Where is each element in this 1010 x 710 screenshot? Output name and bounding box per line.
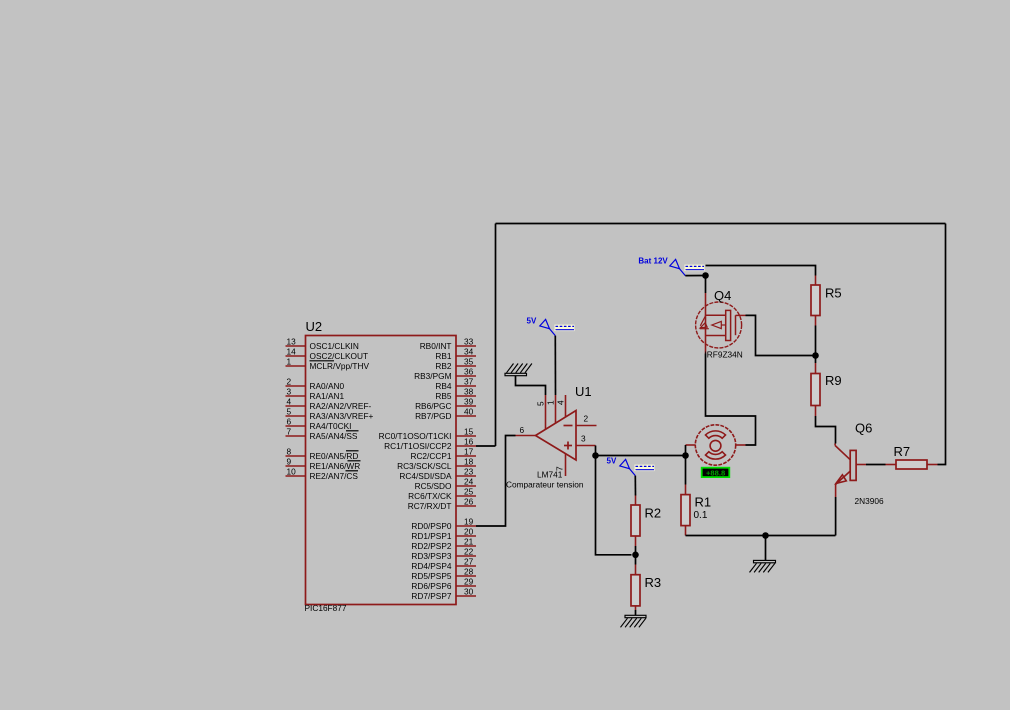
- resistor R5: [811, 276, 842, 326]
- wire: Q6 emitter to bottom rail: [835, 497, 837, 536]
- U2 SS overline: [346, 430, 359, 432]
- U2 pin 3 (RA1/AN1): [286, 387, 345, 402]
- U2 MCLR overline: [310, 360, 335, 362]
- U2 pin 22 (RD3/PSP3): [411, 547, 476, 562]
- svg-text:R7: R7: [894, 444, 911, 459]
- U2 pin 6 (RA4/T0CKI): [286, 417, 352, 432]
- wire: 5V terminal to R2: [634, 476, 636, 496]
- wire: ground to U1 pin5: [516, 376, 546, 395]
- svg-text:U1: U1: [575, 384, 592, 399]
- svg-text:3: 3: [581, 434, 586, 444]
- svg-text:37: 37: [464, 377, 474, 387]
- wire: right border down to R7: [938, 224, 946, 465]
- svg-text:6: 6: [287, 417, 292, 427]
- svg-text:9: 9: [287, 457, 292, 467]
- U2 pin 10 (RE2/AN7/CS): [286, 467, 359, 482]
- wire: Q6 base to R7: [866, 464, 886, 466]
- svg-text:RC1/T1OSI/CCP2: RC1/T1OSI/CCP2: [384, 441, 452, 451]
- U2 pin 35 (RB2): [435, 357, 476, 372]
- svg-text:Q6: Q6: [855, 421, 872, 436]
- resistor R3: [631, 555, 661, 610]
- svg-text:RB2: RB2: [435, 361, 452, 371]
- wire: motor left pin to node: [685, 445, 687, 456]
- U2 pin 18 (RC3/SCK/SCL): [397, 457, 476, 472]
- U2 pin 36 (RB3/PGM): [414, 367, 476, 382]
- wire: R2 bottom to junction: [635, 546, 637, 555]
- svg-text:PIC16F877: PIC16F877: [305, 603, 347, 613]
- power terminal 5V (divider): [620, 459, 655, 475]
- svg-text:RB1: RB1: [435, 351, 452, 361]
- junction node Bat12V: [702, 272, 709, 279]
- svg-text:14: 14: [287, 347, 297, 357]
- motor (DC motor symbol): [686, 425, 746, 465]
- svg-text:+88.8: +88.8: [706, 468, 725, 477]
- svg-text:RC6/TX/CK: RC6/TX/CK: [408, 491, 452, 501]
- U2 WR overline: [348, 460, 361, 462]
- svg-text:4: 4: [287, 397, 292, 407]
- motor readout display: [702, 468, 730, 478]
- U2 pin 34 (RB1): [435, 347, 476, 362]
- svg-text:5V: 5V: [607, 457, 617, 466]
- svg-text:RA5/AN4/SS: RA5/AN4/SS: [310, 431, 358, 441]
- svg-text:Q4: Q4: [714, 288, 731, 303]
- microcontroller U2: [306, 336, 457, 605]
- junction node U1 pin3: [592, 452, 599, 459]
- svg-text:8: 8: [287, 447, 292, 457]
- svg-text:RD5/PSP5: RD5/PSP5: [411, 571, 452, 581]
- svg-text:RD2/PSP2: RD2/PSP2: [411, 541, 452, 551]
- svg-text:RD6/PSP6: RD6/PSP6: [411, 581, 452, 591]
- U2 pin 7 (RA5/AN4/SS): [286, 427, 358, 442]
- ground (below R3): [621, 615, 647, 627]
- U2 pin 30 (RD7/PSP7): [411, 587, 476, 602]
- junction node motor/R1: [682, 452, 689, 459]
- svg-text:2N3906: 2N3906: [855, 496, 884, 506]
- svg-text:4: 4: [556, 400, 566, 405]
- svg-text:RB7/PGD: RB7/PGD: [415, 411, 451, 421]
- wire: Q4 source down to motor wire: [706, 354, 756, 446]
- svg-text:RA2/AN2/VREF-: RA2/AN2/VREF-: [310, 401, 372, 411]
- U1 pin 6 (output, left): [516, 435, 536, 437]
- wire: R3 to ground: [635, 610, 637, 615]
- svg-text:30: 30: [464, 587, 474, 597]
- svg-text:R1: R1: [695, 495, 712, 510]
- U1 pin 5 (offset null, top): [545, 395, 547, 430]
- svg-text:15: 15: [464, 427, 474, 437]
- svg-text:RC7/RX/DT: RC7/RX/DT: [408, 501, 452, 511]
- svg-text:OSC1/CLKIN: OSC1/CLKIN: [310, 341, 359, 351]
- svg-text:35: 35: [464, 357, 474, 367]
- junction node ground tap: [762, 532, 769, 539]
- resistor R7: [886, 444, 938, 469]
- svg-text:RB0/INT: RB0/INT: [420, 341, 452, 351]
- svg-text:34: 34: [464, 347, 474, 357]
- U2 pin 15 (RC0/T1OSO/T1CKI): [379, 427, 476, 442]
- svg-text:RA4/T0CKI: RA4/T0CKI: [310, 421, 352, 431]
- svg-text:RB4: RB4: [435, 381, 452, 391]
- svg-text:27: 27: [464, 557, 474, 567]
- wire: U1 pin3 node to motor node: [596, 455, 686, 457]
- svg-text:20: 20: [464, 527, 474, 537]
- U2 pin 8 (RE0/AN5/RD): [286, 447, 359, 462]
- svg-text:38: 38: [464, 387, 474, 397]
- svg-text:21: 21: [464, 537, 474, 547]
- op-amp U1 (mirrored LM741): [536, 411, 577, 461]
- U2 pin 26 (RC7/RX/DT): [408, 497, 476, 512]
- U2 pin 39 (RB6/PGC): [415, 397, 476, 412]
- U2 pin 33 (RB0/INT): [420, 337, 476, 352]
- U2 CS overline: [346, 470, 359, 472]
- power terminal 5V (op-amp supply): [540, 319, 575, 335]
- svg-text:19: 19: [464, 517, 474, 527]
- svg-text:R9: R9: [825, 373, 842, 388]
- svg-text:MCLR/Vpp/THV: MCLR/Vpp/THV: [310, 361, 370, 371]
- svg-text:1: 1: [287, 357, 292, 367]
- svg-text:R5: R5: [825, 286, 842, 301]
- svg-text:5: 5: [536, 401, 546, 406]
- U1 pin 2 (inverting input stub): [576, 425, 597, 427]
- svg-text:RD0/PSP0: RD0/PSP0: [411, 521, 452, 531]
- svg-text:RD3/PSP3: RD3/PSP3: [411, 551, 452, 561]
- svg-text:33: 33: [464, 337, 474, 347]
- wire: node to ground: [765, 536, 767, 561]
- junction node R2/R3: [632, 552, 639, 559]
- svg-text:IRF9Z34N: IRF9Z34N: [705, 350, 743, 360]
- wire: Bat12V terminal to node: [685, 275, 705, 277]
- svg-text:RA3/AN3/VREF+: RA3/AN3/VREF+: [310, 411, 374, 421]
- svg-text:RE1/AN6/WR: RE1/AN6/WR: [310, 461, 361, 471]
- resistor R1: [681, 485, 711, 536]
- svg-text:36: 36: [464, 367, 474, 377]
- U2 pin 23 (RC4/SDI/SDA): [399, 467, 476, 482]
- svg-text:R3: R3: [645, 575, 662, 590]
- svg-text:U2: U2: [306, 319, 323, 334]
- transistor Q6 (2N3906 PNP): [835, 444, 866, 498]
- svg-text:25: 25: [464, 487, 474, 497]
- U2 pin 21 (RD2/PSP2): [411, 537, 476, 552]
- wire: R5 bottom to junction: [815, 326, 817, 356]
- wire: Q4 gate to R5/R9 junction: [746, 315, 816, 355]
- U1 pin 1 (offset null, top): [555, 395, 557, 424]
- U2 pin 20 (RD1/PSP1): [411, 527, 476, 542]
- svg-text:2: 2: [584, 414, 589, 424]
- svg-text:RD7/PSP7: RD7/PSP7: [411, 591, 452, 601]
- wire: U1 pin3 down to node: [595, 446, 597, 456]
- svg-text:16: 16: [464, 437, 474, 447]
- U2 pin 24 (RC5/SDO): [415, 477, 476, 492]
- svg-text:28: 28: [464, 567, 474, 577]
- svg-text:LM741: LM741: [537, 470, 563, 480]
- svg-text:RC3/SCK/SCL: RC3/SCK/SCL: [397, 461, 452, 471]
- wire: node down to R2 bottom junction: [596, 456, 632, 555]
- svg-text:3: 3: [287, 387, 292, 397]
- svg-text:RD4/PSP4: RD4/PSP4: [411, 561, 452, 571]
- svg-text:6: 6: [520, 425, 525, 435]
- U1 pin 7 (bottom, unconnected): [565, 454, 567, 477]
- svg-text:40: 40: [464, 407, 474, 417]
- svg-text:18: 18: [464, 457, 474, 467]
- U2 pin 28 (RD5/PSP5): [411, 567, 476, 582]
- svg-text:RC0/T1OSO/T1CKI: RC0/T1OSO/T1CKI: [379, 431, 452, 441]
- U2 pin 9 (RE1/AN6/WR): [286, 457, 361, 472]
- svg-text:RB3/PGM: RB3/PGM: [414, 371, 451, 381]
- wire: U2 pin19 to op-amp output: [476, 436, 516, 527]
- svg-text:RE2/AN7/CS: RE2/AN7/CS: [310, 471, 359, 481]
- power terminal Bat 12V: [670, 259, 705, 275]
- svg-text:10: 10: [287, 467, 297, 477]
- U2 pin 13 (OSC1/CLKIN): [286, 337, 359, 352]
- wire: vertical riser to top rail: [495, 224, 497, 447]
- U2 pin 5 (RA3/AN3/VREF+): [286, 407, 374, 422]
- junction node R5/R9/gate: [812, 352, 819, 359]
- svg-text:RC2/CCP1: RC2/CCP1: [410, 451, 451, 461]
- U2 RD overline: [346, 450, 359, 452]
- svg-text:RA1/AN1: RA1/AN1: [310, 391, 345, 401]
- wire: 5V terminal to U1 pin1: [554, 336, 556, 395]
- svg-text:23: 23: [464, 467, 474, 477]
- U2 pin 14 (OSC2/CLKOUT): [286, 347, 369, 362]
- wire: Q4 drain node to R5 top: [706, 266, 816, 276]
- resistor R9: [811, 356, 842, 417]
- U2 pin 40 (RB7/PGD): [415, 407, 476, 422]
- svg-text:RD1/PSP1: RD1/PSP1: [411, 531, 452, 541]
- svg-text:26: 26: [464, 497, 474, 507]
- U1 pin 3 (non-inverting input): [576, 445, 596, 447]
- svg-text:13: 13: [287, 337, 297, 347]
- svg-text:5: 5: [287, 407, 292, 417]
- svg-text:24: 24: [464, 477, 474, 487]
- U2 pin 38 (RB5): [435, 387, 476, 402]
- svg-text:7: 7: [287, 427, 292, 437]
- wire: top rail: [496, 223, 946, 225]
- svg-text:RA0/AN0: RA0/AN0: [310, 381, 345, 391]
- U2 pin 1 (MCLR/Vpp/THV): [286, 357, 370, 372]
- svg-text:0.1: 0.1: [694, 510, 708, 521]
- U2 pin 25 (RC6/TX/CK): [408, 487, 476, 502]
- svg-text:22: 22: [464, 547, 474, 557]
- U2 pin 17 (RC2/CCP1): [410, 447, 476, 462]
- svg-text:R2: R2: [645, 506, 662, 521]
- U2 pin 4 (RA2/AN2/VREF-): [286, 397, 372, 412]
- svg-text:2: 2: [287, 377, 292, 387]
- svg-text:Comparateur tension: Comparateur tension: [506, 480, 584, 490]
- svg-text:5V: 5V: [527, 317, 537, 326]
- U1 pin 4 (top, unconnected): [565, 395, 567, 418]
- svg-text:17: 17: [464, 447, 474, 457]
- svg-text:29: 29: [464, 577, 474, 587]
- svg-text:RC5/SDO: RC5/SDO: [415, 481, 452, 491]
- wire: Bat12V node down to Q4: [705, 276, 707, 294]
- svg-text:RB6/PGC: RB6/PGC: [415, 401, 451, 411]
- U2 pin 16 (RC1/T1OSI/CCP2): [384, 437, 476, 452]
- ground (op-amp pin 5): [505, 364, 532, 376]
- U2 pin 2 (RA0/AN0): [286, 377, 345, 392]
- svg-text:39: 39: [464, 397, 474, 407]
- ground (bottom rail): [750, 560, 776, 572]
- svg-text:RC4/SDI/SDA: RC4/SDI/SDA: [399, 471, 452, 481]
- svg-text:RE0/AN5/RD: RE0/AN5/RD: [310, 451, 359, 461]
- svg-text:1: 1: [546, 400, 556, 405]
- svg-text:RB5: RB5: [435, 391, 452, 401]
- svg-text:OSC2/CLKOUT: OSC2/CLKOUT: [310, 351, 369, 361]
- U2 pin 19 (RD0/PSP0): [411, 517, 476, 532]
- svg-text:Bat 12V: Bat 12V: [638, 257, 668, 266]
- wire: U2 pin16 to vertical riser: [476, 445, 496, 447]
- U2 pin 29 (RD6/PSP6): [411, 577, 476, 592]
- resistor R2: [631, 496, 661, 547]
- wire: bottom rail R1 to Q6 emitter: [686, 535, 836, 537]
- transistor Q4 (IRF9Z34N P-MOSFET): [696, 293, 746, 354]
- wire: motor node down to R1: [685, 456, 687, 485]
- U2 pin 27 (RD4/PSP4): [411, 557, 476, 572]
- U2 pin 37 (RB4): [435, 377, 476, 392]
- wire: R9 bottom to Q6 collector: [816, 416, 836, 444]
